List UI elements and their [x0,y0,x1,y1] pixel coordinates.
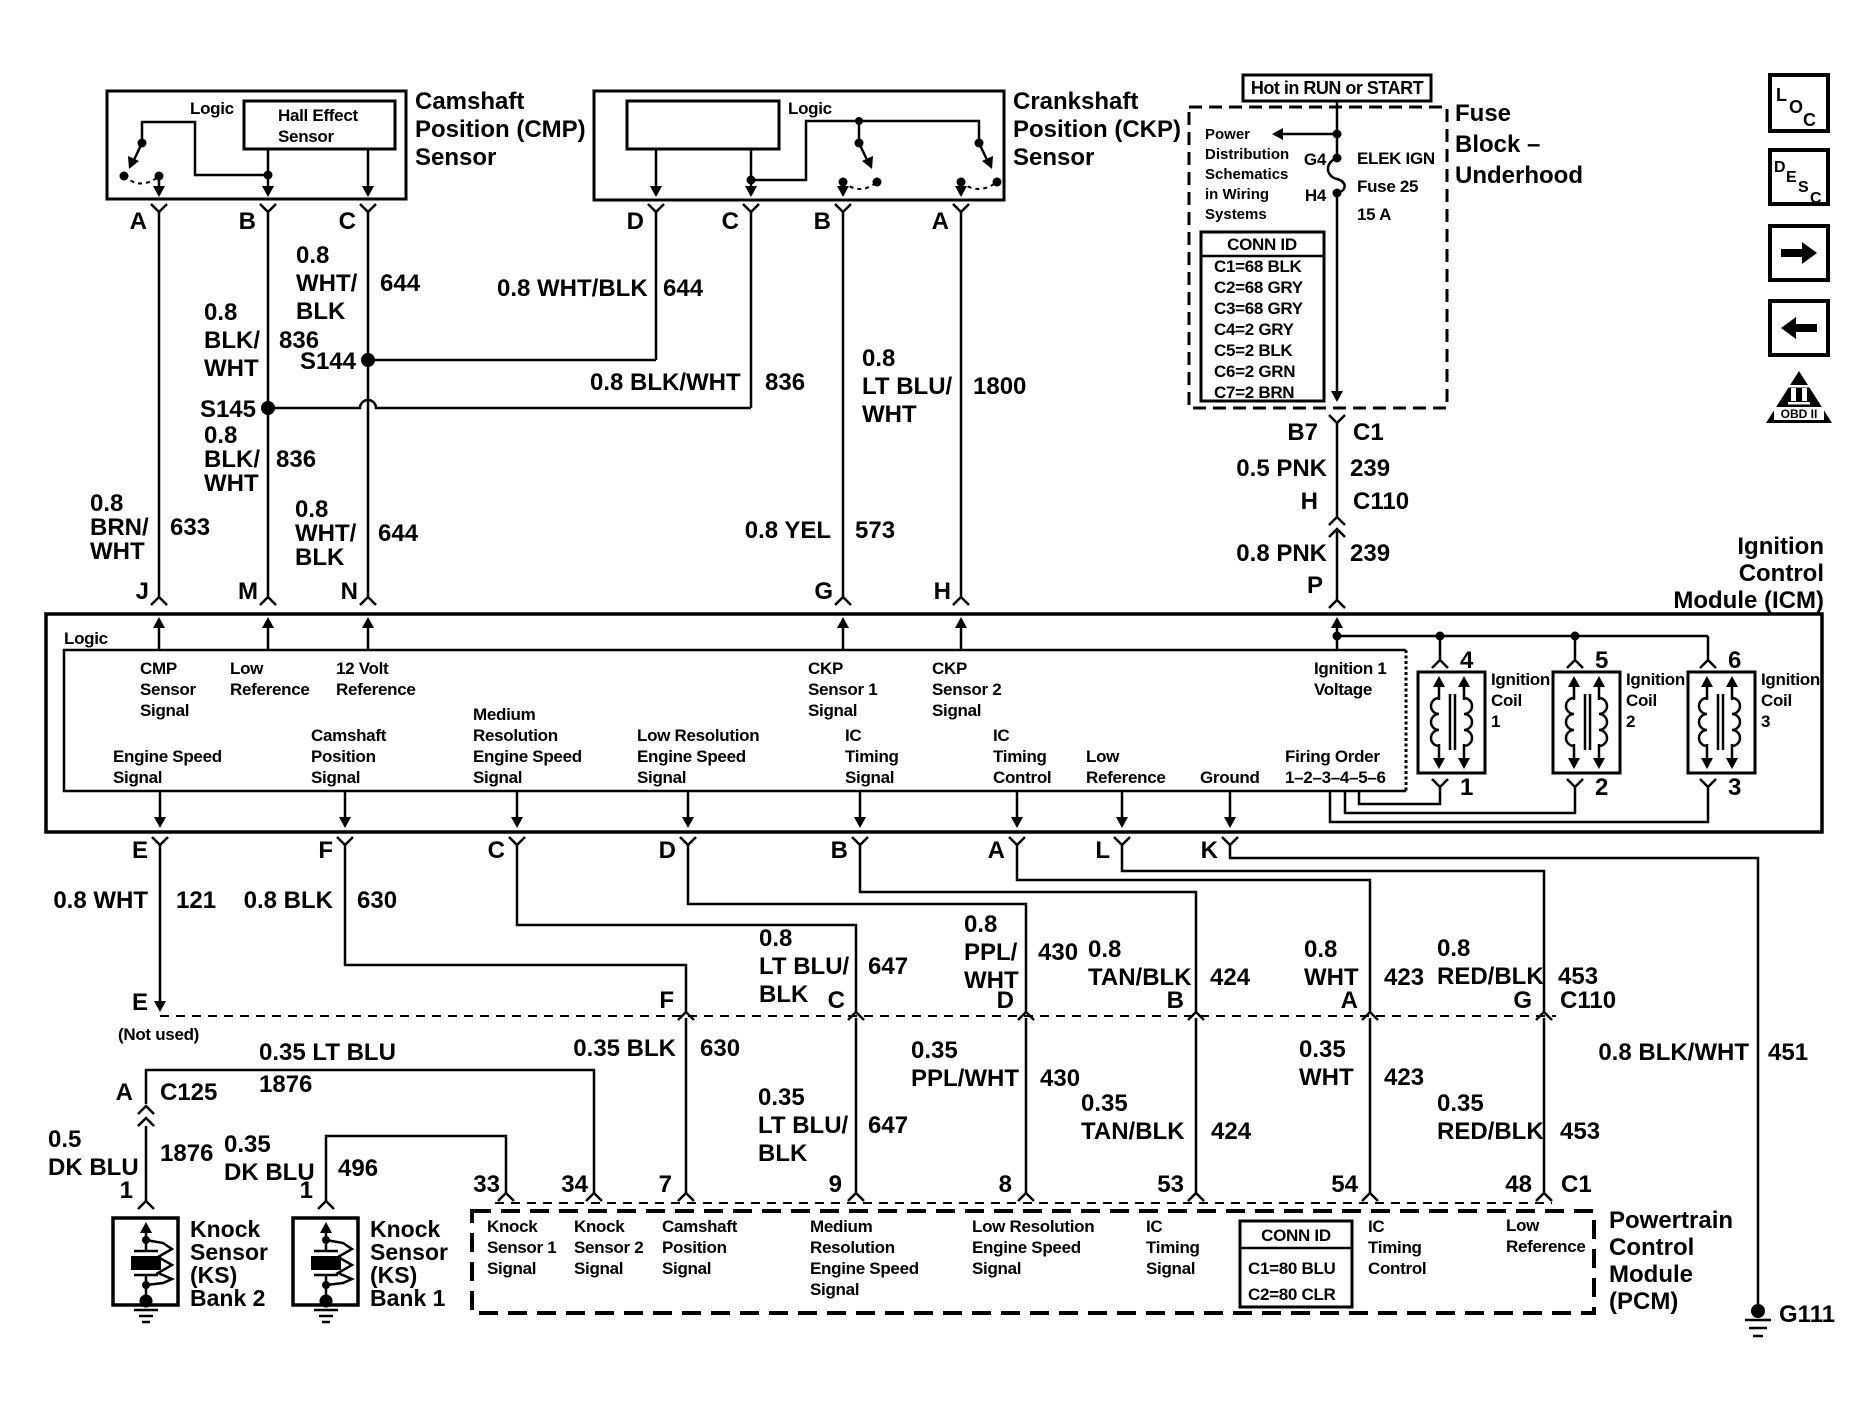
svg-text:Logic: Logic [64,629,108,648]
svg-text:Knock: Knock [574,1217,625,1236]
svg-text:Hot in RUN or START: Hot in RUN or START [1251,78,1424,98]
ignition coil 3 top connector pin 6 [1700,660,1716,668]
svg-text:PPL/: PPL/ [964,939,1018,966]
icon forward arrow box [1770,226,1828,280]
svg-text:PPL/WHT: PPL/WHT [911,1065,1019,1092]
CKP switch1 dashed arc [843,182,877,189]
svg-text:S: S [1798,179,1809,196]
CKP pin D connector [648,204,664,212]
svg-text:48: 48 [1505,1171,1532,1198]
svg-text:C3=68 GRY: C3=68 GRY [1214,299,1304,318]
svg-text:Sensor 2: Sensor 2 [932,680,1001,699]
svg-text:423: 423 [1384,1064,1424,1091]
camshaft position sensor CMP box [107,91,406,199]
svg-text:Control: Control [1609,1234,1694,1261]
wire 0.35 TAN/BLK 424 to PCM 53 [1195,1018,1198,1193]
ignition coil 2 box [1553,672,1620,773]
CKP switch2 dashed arc [961,182,997,189]
wire 0.8 BLK/WHT 836 CMP B to ICM M [267,212,270,597]
svg-text:Medium: Medium [810,1217,873,1236]
ignition coil 1 core [1449,694,1452,750]
ICM pin L connector [1114,837,1130,845]
svg-text:Crankshaft: Crankshaft [1013,88,1138,115]
wire 0.35 DK BLU 496 to PCM 33 [326,1136,506,1201]
svg-text:451: 451 [1768,1039,1808,1066]
svg-text:Engine Speed: Engine Speed [637,747,746,766]
svg-text:0.8 BLK/WHT: 0.8 BLK/WHT [590,369,741,396]
svg-text:Signal: Signal [810,1280,859,1299]
node ignition bus junction dot [1333,632,1342,641]
ICM pin N connector [360,597,376,605]
knock sensor bank 2 resistor [146,1240,172,1285]
svg-text:Block –: Block – [1455,131,1540,158]
CMP pin B connector [260,204,276,212]
svg-text:Coil: Coil [1491,691,1522,710]
svg-text:B: B [1167,987,1184,1014]
svg-text:Hall Effect: Hall Effect [278,106,358,125]
ignition coil 3 primary winding [1706,682,1709,700]
svg-text:D: D [627,208,644,235]
svg-text:836: 836 [276,446,316,473]
svg-text:Reference: Reference [1506,1237,1586,1256]
svg-text:A: A [1341,987,1358,1014]
CMP switch wire [142,122,264,175]
svg-text:LT BLU/: LT BLU/ [759,953,850,980]
icon OBD II triangle [1766,371,1832,423]
svg-text:Knock: Knock [487,1217,538,1236]
svg-text:Logic: Logic [190,99,234,118]
ICM exit arrow pin C [516,791,519,822]
svg-text:IC: IC [993,726,1009,745]
svg-text:C: C [488,837,505,864]
svg-text:Reference: Reference [230,680,310,699]
node coil 1 feed dot [1436,632,1445,641]
svg-text:RED/BLK: RED/BLK [1437,1118,1544,1145]
svg-text:Reference: Reference [1086,768,1166,787]
wire junction to fuse [1336,134,1339,158]
ICM entry arrow pin M [267,623,270,650]
svg-text:Reference: Reference [336,680,416,699]
svg-text:Engine Speed: Engine Speed [972,1238,1081,1257]
svg-text:A: A [988,837,1005,864]
wire S145 to CKP C with hop [268,400,751,408]
CKP switch2 arm arrow [979,143,988,162]
svg-text:J: J [136,578,149,605]
wire 0.8 BLK 630 pin F [345,845,686,1012]
ICM pin E connector [152,837,168,845]
ICM pin B connector [852,837,868,845]
svg-text:15 A: 15 A [1357,205,1391,224]
svg-text:Control: Control [1368,1259,1426,1278]
CMP switch dashed arc [124,176,159,184]
svg-text:121: 121 [176,887,216,914]
svg-text:B: B [239,208,256,235]
svg-text:C1: C1 [1561,1171,1592,1198]
svg-text:BLK: BLK [295,544,345,571]
crankshaft position sensor CKP box [594,91,1004,200]
icon DESC box [1770,150,1828,204]
wire 0.8 RED/BLK 453 pin L [1122,845,1544,1012]
wire coil 1 return to logic [1359,787,1440,804]
connector C110 pin H [1329,517,1345,525]
node knock 1 top dot [322,1236,330,1244]
CKP pin B internal arrow [842,182,845,191]
wire coil 3 return to logic [1330,787,1708,822]
ignition coil 3 bottom connector pin 3 [1700,779,1716,787]
svg-text:Ignition 1: Ignition 1 [1314,659,1387,678]
svg-text:5: 5 [1595,647,1608,674]
svg-text:C: C [1803,110,1816,130]
wire 0.35 LT BLU 1876 to PCM 34 [146,1070,594,1193]
CKP pickup box [627,101,779,149]
ignition coil 2 top connector pin 5 [1567,660,1583,668]
svg-text:C2=80 CLR: C2=80 CLR [1248,1285,1336,1304]
wire 0.35 WHT 423 to PCM 54 [1369,1018,1372,1193]
svg-text:C1=68 BLK: C1=68 BLK [1214,257,1303,276]
svg-text:0.8: 0.8 [204,422,237,449]
svg-text:0.8: 0.8 [759,925,792,952]
ICM pin C connector [509,837,525,845]
CKP switch1 contact dot [873,178,882,187]
CKP pin B connector [835,204,851,212]
PCM pin 9 connector [848,1193,864,1201]
node coil 2 feed dot [1571,632,1580,641]
svg-text:H: H [934,578,951,605]
CMP switch pivot dot [138,139,147,148]
svg-text:O: O [1789,97,1803,117]
svg-text:ELEK IGN: ELEK IGN [1357,149,1435,168]
knock sensor bank 1 resistor [326,1240,352,1285]
svg-text:WHT: WHT [204,355,259,382]
svg-text:M: M [238,578,258,605]
svg-text:Signal: Signal [932,701,981,720]
svg-text:0.8: 0.8 [1304,936,1337,963]
svg-text:430: 430 [1040,1065,1080,1092]
svg-text:Camshaft: Camshaft [415,88,524,115]
svg-text:0.35: 0.35 [1437,1090,1484,1117]
svg-text:C110: C110 [1560,987,1616,1014]
CMP pin A connector [151,204,167,212]
ICM pin P connector [1329,600,1345,608]
svg-text:H: H [1301,488,1318,515]
svg-text:LT BLU/: LT BLU/ [862,373,953,400]
svg-text:B: B [831,837,848,864]
svg-text:Sensor 2: Sensor 2 [574,1238,643,1257]
svg-text:C1=80 BLU: C1=80 BLU [1248,1259,1336,1278]
node knock 2 top dot [142,1236,150,1244]
svg-text:424: 424 [1211,1118,1252,1145]
svg-text:Sensor: Sensor [140,680,197,699]
svg-text:Ignition: Ignition [1761,670,1820,689]
svg-text:Low Resolution: Low Resolution [637,726,759,745]
svg-text:Signal: Signal [662,1259,711,1278]
svg-text:1: 1 [300,1177,313,1204]
wire fuse to fuse block exit [1336,193,1339,396]
knock sensor bank 1 ground stud [320,1295,333,1308]
svg-text:Low: Low [230,659,264,678]
ignition coil 2 secondary winding [1598,682,1601,700]
svg-text:0.8: 0.8 [204,299,237,326]
CKP pin C internal arrow [750,180,753,191]
svg-text:Timing: Timing [1146,1238,1200,1257]
connector C110 pin A [1362,1012,1378,1020]
wire S144 to CKP D [368,359,656,362]
ICM entry arrow pin G [842,623,845,650]
ICM exit arrow pin F [344,791,347,822]
svg-text:A: A [116,1079,133,1106]
svg-text:0.8 BLK: 0.8 BLK [244,887,334,914]
svg-text:H4: H4 [1305,186,1327,205]
svg-text:3: 3 [1761,712,1770,731]
svg-text:BLK/: BLK/ [204,446,260,473]
svg-text:Sensor 1: Sensor 1 [808,680,877,699]
wire coil 2 return to logic [1345,787,1575,813]
svg-text:Fuse: Fuse [1455,100,1511,127]
svg-text:Signal: Signal [487,1259,536,1278]
powertrain control module PCM dashed box [472,1211,1594,1313]
svg-text:836: 836 [765,369,805,396]
ICM exit arrow pin B [859,791,862,822]
svg-text:F: F [659,987,674,1014]
svg-text:C: C [339,208,356,235]
ICM pin J connector [151,597,167,605]
connector C110 pin B [1188,1012,1204,1020]
wire 0.8 PNK 239 [1336,529,1339,600]
svg-text:TAN/BLK: TAN/BLK [1081,1118,1185,1145]
svg-text:573: 573 [855,517,895,544]
svg-text:Signal: Signal [311,768,360,787]
svg-text:6: 6 [1728,647,1741,674]
svg-text:1876: 1876 [259,1071,312,1098]
svg-text:CKP: CKP [932,659,967,678]
connector C110 pin F [678,1012,694,1020]
svg-text:647: 647 [868,953,908,980]
svg-text:Sensor: Sensor [1013,144,1094,171]
PCM pin 54 connector [1362,1193,1378,1201]
svg-text:453: 453 [1560,1118,1600,1145]
svg-text:C125: C125 [160,1079,217,1106]
svg-text:0.8: 0.8 [296,242,329,269]
ground G111 [1751,1304,1765,1318]
ICM pin K connector [1222,837,1238,845]
svg-text:Voltage: Voltage [1314,680,1372,699]
svg-text:BLK/: BLK/ [204,327,260,354]
svg-text:N: N [341,578,358,605]
connector C110 pin D [1018,1012,1034,1020]
ICM exit arrow pin K [1229,791,1232,822]
svg-text:424: 424 [1210,964,1251,991]
fuse block CONN ID table [1201,232,1324,401]
svg-text:0.8: 0.8 [1088,936,1121,963]
svg-text:9: 9 [829,1171,842,1198]
svg-text:Systems: Systems [1205,206,1267,223]
svg-text:BLK: BLK [759,981,809,1008]
svg-text:0.8: 0.8 [295,496,328,523]
svg-text:WHT: WHT [1299,1064,1354,1091]
ICM entry arrow pin N [367,623,370,650]
hall effect sensor box [244,101,395,149]
svg-text:D: D [659,837,676,864]
knock sensor bank 1 internal arrow [325,1228,328,1240]
connector C110 dashed line [160,1015,1556,1017]
svg-text:K: K [1201,837,1219,864]
svg-text:CKP: CKP [808,659,843,678]
svg-text:0.8: 0.8 [862,345,895,372]
svg-text:1: 1 [1491,712,1500,731]
ICM pin A connector [1009,837,1025,845]
svg-text:Distribution: Distribution [1205,146,1289,163]
knock sensor bank 1 ground [314,1309,338,1312]
CKP switch2 contact dot [993,178,1002,187]
svg-text:496: 496 [338,1155,378,1182]
svg-text:Control: Control [993,768,1051,787]
svg-text:Signal: Signal [574,1259,623,1278]
wire 0.35 BLK 630 to PCM 7 [685,1018,688,1193]
svg-text:Low: Low [1086,747,1120,766]
svg-text:Firing Order: Firing Order [1285,747,1380,766]
connector C110 pin G [1536,1012,1552,1020]
svg-text:E: E [132,989,148,1016]
svg-text:647: 647 [868,1112,908,1139]
ignition coil 3 core [1717,694,1720,750]
ignition coil 1 top connector pin 4 [1432,660,1448,668]
knock sensor bank 2 internal arrow [145,1228,148,1240]
wire 0.5 DK BLU 1876 to knock sensor bank 2 [145,1126,148,1201]
svg-text:Signal: Signal [845,768,894,787]
svg-text:12 Volt: 12 Volt [336,659,389,678]
ignition coil 3 secondary winding [1731,682,1734,700]
svg-text:A: A [130,208,147,235]
node CKP bus dot [855,117,863,125]
fuse block dashed box [1189,107,1447,408]
wire 0.8 TAN/BLK 424 pin B [860,845,1196,1012]
svg-text:Low Resolution: Low Resolution [972,1217,1094,1236]
CKP pin A connector [953,204,969,212]
svg-text:0.35: 0.35 [758,1084,805,1111]
node CMP pin A dot [155,172,164,181]
ICM pin H connector [953,597,969,605]
svg-text:Logic: Logic [788,99,832,118]
svg-text:644: 644 [378,520,419,547]
CKP pin D internal wire and arrow [655,149,658,191]
ICM exit arrow pin D [687,791,690,822]
svg-text:Signal: Signal [637,768,686,787]
CKP switch1 arm arrow [859,143,868,162]
CMP pin C internal arrow [367,176,370,191]
svg-text:1–2–3–4–5–6: 1–2–3–4–5–6 [1285,768,1386,787]
svg-text:Powertrain: Powertrain [1609,1207,1733,1234]
svg-text:S145: S145 [200,396,256,423]
ignition coil 3 box [1688,672,1755,773]
svg-text:Underhood: Underhood [1455,162,1583,189]
node CKP pin A dot [957,178,966,187]
ICM exit arrow pin E [159,791,162,822]
ICM inner logic box [64,650,1406,791]
svg-text:0.35: 0.35 [911,1037,958,1064]
svg-text:453: 453 [1558,963,1598,990]
svg-text:Camshaft: Camshaft [662,1217,738,1236]
svg-text:B7: B7 [1287,419,1318,446]
svg-text:F: F [318,837,333,864]
svg-text:C5=2 BLK: C5=2 BLK [1214,341,1293,360]
svg-text:B: B [814,208,831,235]
svg-text:0.8 WHT/BLK: 0.8 WHT/BLK [497,275,648,302]
svg-text:3: 3 [1728,774,1741,801]
svg-text:WHT/: WHT/ [295,520,357,547]
svg-text:Module: Module [1609,1261,1693,1288]
svg-text:644: 644 [380,270,421,297]
svg-text:0.5 PNK: 0.5 PNK [1236,455,1327,482]
svg-text:WHT/: WHT/ [296,270,358,297]
svg-text:630: 630 [700,1035,740,1062]
svg-text:Engine Speed: Engine Speed [810,1259,919,1278]
svg-text:53: 53 [1157,1171,1184,1198]
knock sensor bank 1 piezo element [325,1240,328,1251]
power distribution arrow [1278,133,1337,136]
wire 0.8 WHT/BLK 644 CMP C to ICM N [367,212,370,597]
svg-text:Coil: Coil [1761,691,1792,710]
wire 0.8 WHT 423 pin A [1017,845,1370,1012]
svg-text:C1: C1 [1353,419,1384,446]
svg-text:0.8 BLK/WHT: 0.8 BLK/WHT [1598,1039,1749,1066]
knock sensor bank 2 ground [134,1309,158,1312]
svg-text:8: 8 [999,1171,1012,1198]
wire hot feed into fuse block [1336,101,1339,134]
CKP pin C connector [743,204,759,212]
PCM CONN ID table [1240,1221,1352,1307]
wire coil 1 feed [1439,636,1442,659]
svg-text:Engine Speed: Engine Speed [473,747,582,766]
svg-text:in Wiring: in Wiring [1205,186,1269,203]
ICM pin G connector [835,597,851,605]
svg-text:Position: Position [662,1238,727,1257]
wire coil 2 feed [1574,636,1577,659]
svg-text:2: 2 [1626,712,1635,731]
node CKP pin C dot [747,176,756,185]
svg-text:C6=2 GRN: C6=2 GRN [1214,362,1295,381]
svg-text:0.35: 0.35 [1299,1036,1346,1063]
wire 0.8 BRN/WHT 633 CMP A to ICM J [158,212,161,597]
svg-text:C2=68 GRY: C2=68 GRY [1214,278,1304,297]
ICM pin M connector [260,597,276,605]
svg-text:BRN/: BRN/ [90,514,149,541]
svg-text:239: 239 [1350,455,1390,482]
wire 0.8 BLK/WHT 451 pin K to ground [1230,845,1758,1304]
svg-text:0.8: 0.8 [1437,935,1470,962]
svg-text:Resolution: Resolution [473,726,558,745]
svg-text:CMP: CMP [140,659,177,678]
knock sensor KS bank 1 box [293,1218,358,1305]
svg-text:Low: Low [1506,1216,1540,1235]
svg-text:G: G [1513,987,1532,1014]
svg-text:0.35: 0.35 [224,1131,271,1158]
svg-text:0.5: 0.5 [48,1126,81,1153]
ICM exit arrow pin L [1121,791,1124,822]
CKP pin A internal arrow [960,182,963,191]
hot in run or start box [1243,75,1431,101]
svg-text:G: G [814,578,833,605]
svg-text:Position (CKP): Position (CKP) [1013,116,1181,143]
wire 0.8 LT BLU/WHT 1800 CKP A to ICM H [960,212,963,597]
svg-text:Fuse 25: Fuse 25 [1357,177,1418,196]
svg-text:OBD II: OBD II [1781,407,1818,421]
node knock 2 bottom dot [142,1281,150,1289]
svg-text:423: 423 [1384,964,1424,991]
svg-text:P: P [1307,572,1323,599]
svg-text:E: E [1786,169,1797,186]
PCM pin 53 connector [1188,1193,1204,1201]
svg-text:Signal: Signal [808,701,857,720]
